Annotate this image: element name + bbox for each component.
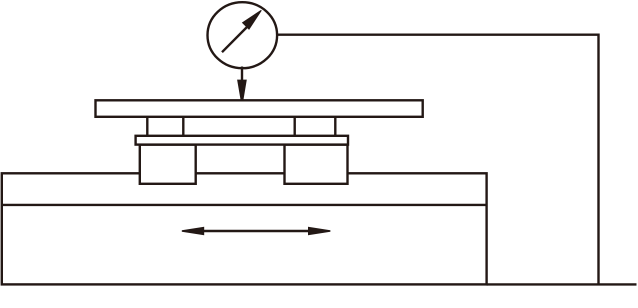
dial indicator body bbox=[208, 2, 278, 68]
dial needle bbox=[222, 10, 261, 52]
right support block bbox=[285, 145, 348, 184]
motion double arrow bbox=[182, 227, 331, 236]
bottom reference line extension bbox=[487, 283, 637, 285]
connector line from dial to base bbox=[277, 35, 599, 285]
bar (lower plate) bbox=[136, 136, 348, 145]
left support block bbox=[140, 145, 196, 184]
right post bbox=[295, 117, 336, 136]
base surface plate bbox=[2, 173, 487, 284]
contact tip arrow bbox=[237, 80, 247, 101]
indicator stem bbox=[241, 67, 243, 82]
workpiece plate bbox=[96, 100, 423, 117]
left post bbox=[147, 117, 183, 136]
